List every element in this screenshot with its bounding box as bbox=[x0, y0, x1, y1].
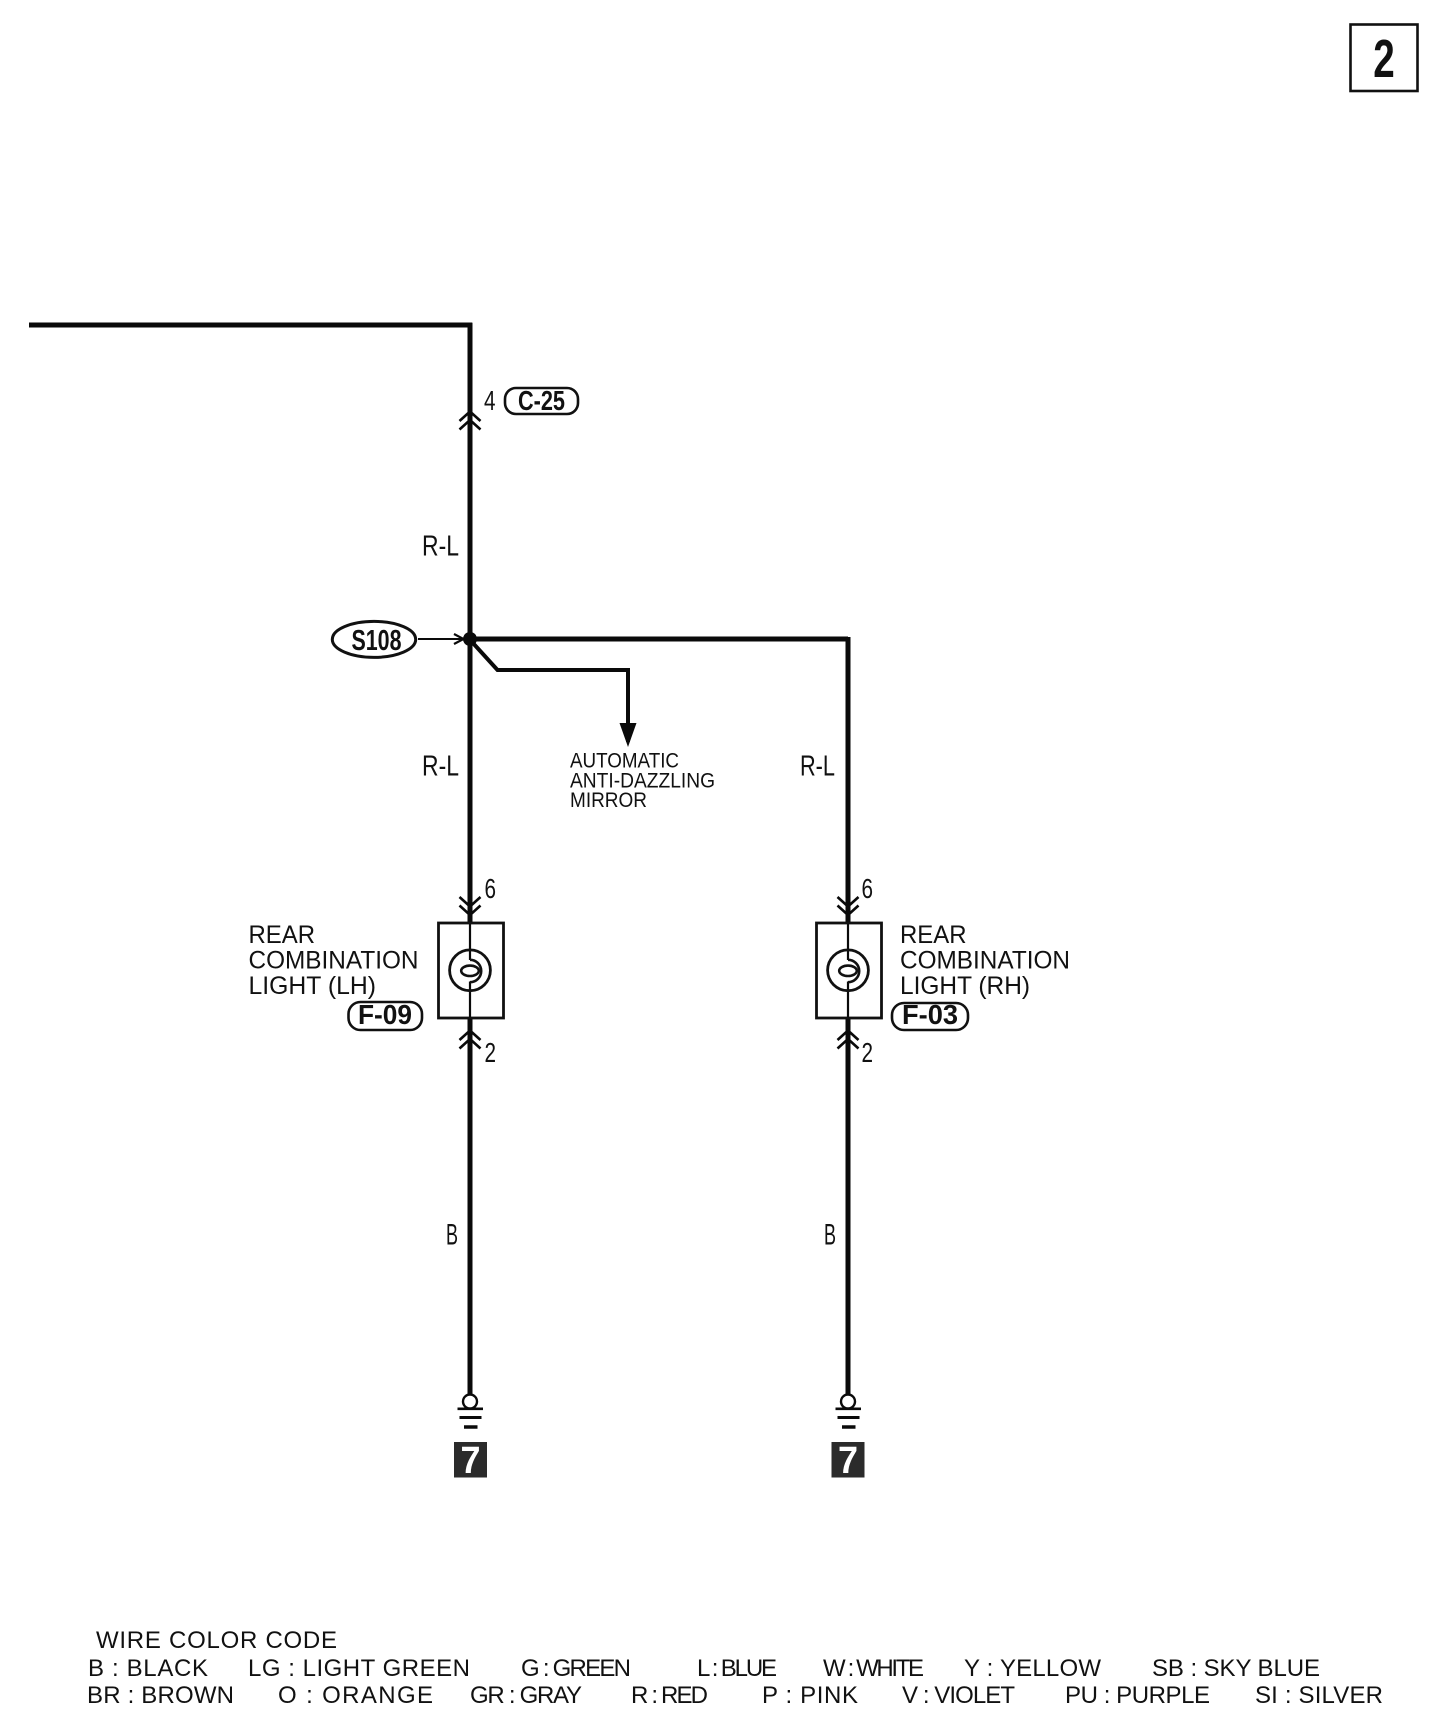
wire: right branch through lamp box bbox=[847, 923, 849, 960]
connector label F-03 bbox=[892, 999, 968, 1030]
pin 6 arrows into left lamp (down) bbox=[460, 897, 481, 915]
splice S108 bbox=[332, 621, 415, 657]
ground reference box 7 (right) bbox=[832, 1440, 865, 1482]
svg-text:P : PINK: P : PINK bbox=[762, 1682, 858, 1709]
wire: right vertical branch (lower) bbox=[846, 1018, 851, 1394]
svg-text:6: 6 bbox=[485, 873, 497, 904]
junction node at S108 bbox=[463, 632, 477, 646]
svg-text:2: 2 bbox=[485, 1037, 497, 1068]
svg-text:V : VIOLET: V : VIOLET bbox=[902, 1682, 1015, 1709]
svg-text:7: 7 bbox=[838, 1440, 858, 1482]
label: automatic anti-dazzling mirror bbox=[570, 750, 715, 813]
wire: left branch through lamp box bbox=[469, 923, 471, 960]
pin 2 arrows out of right lamp (up) bbox=[838, 1031, 859, 1049]
rear combination light (LH) box bbox=[439, 923, 504, 1018]
svg-text:PU : PURPLE: PU : PURPLE bbox=[1065, 1682, 1210, 1709]
svg-text:B: B bbox=[824, 1219, 836, 1252]
wire: left vertical branch (upper) bbox=[468, 323, 473, 923]
svg-text:R-L: R-L bbox=[422, 751, 459, 783]
svg-text:W : WHITE: W : WHITE bbox=[823, 1655, 924, 1682]
wire: junction to right branch (horizontal) bbox=[470, 637, 848, 642]
rear combination light (RH) box bbox=[817, 923, 882, 1018]
svg-text:F-03: F-03 bbox=[902, 999, 958, 1030]
svg-text:4: 4 bbox=[484, 385, 496, 416]
svg-text:LIGHT (LH): LIGHT (LH) bbox=[249, 972, 377, 1000]
svg-text:COMBINATION: COMBINATION bbox=[249, 947, 419, 975]
arrow from S108 to junction bbox=[418, 634, 464, 644]
svg-text:B: B bbox=[446, 1219, 458, 1252]
lamp symbol (RH) bbox=[828, 950, 869, 991]
svg-text:L : BLUE: L : BLUE bbox=[697, 1655, 777, 1682]
svg-text:C-25: C-25 bbox=[518, 385, 565, 416]
ground reference box 7 (left) bbox=[454, 1440, 487, 1482]
svg-text:GR : GRAY: GR : GRAY bbox=[470, 1682, 582, 1709]
svg-text:S108: S108 bbox=[352, 625, 402, 657]
svg-text:BR : BROWN: BR : BROWN bbox=[87, 1682, 234, 1709]
svg-text:REAR: REAR bbox=[249, 921, 316, 949]
label: rear combination light (RH) bbox=[900, 921, 1070, 1000]
svg-text:MIRROR: MIRROR bbox=[570, 789, 647, 812]
svg-text:Y : YELLOW: Y : YELLOW bbox=[964, 1655, 1101, 1682]
legend row 2 bbox=[87, 1682, 1383, 1709]
svg-text:6: 6 bbox=[862, 873, 874, 904]
legend row 1 bbox=[88, 1655, 1320, 1682]
svg-text:2: 2 bbox=[1373, 29, 1395, 89]
svg-text:O : ORANGE: O : ORANGE bbox=[278, 1682, 433, 1709]
svg-text:WIRE COLOR CODE: WIRE COLOR CODE bbox=[96, 1627, 337, 1654]
svg-text:R-L: R-L bbox=[800, 751, 835, 783]
connector C-25 pass-through arrows (up) bbox=[460, 412, 481, 430]
svg-text:LG : LIGHT GREEN: LG : LIGHT GREEN bbox=[248, 1655, 470, 1682]
label: rear combination light (LH) bbox=[249, 921, 419, 1000]
ground symbol (right) bbox=[836, 1395, 862, 1428]
page number box 2 bbox=[1351, 25, 1418, 92]
svg-text:SI : SILVER: SI : SILVER bbox=[1255, 1682, 1383, 1709]
svg-text:COMBINATION: COMBINATION bbox=[900, 947, 1070, 975]
svg-text:LIGHT (RH): LIGHT (RH) bbox=[900, 972, 1030, 1000]
svg-text:G : GREEN: G : GREEN bbox=[521, 1655, 631, 1682]
svg-text:SB : SKY BLUE: SB : SKY BLUE bbox=[1152, 1655, 1320, 1682]
connector label C-25 bbox=[505, 385, 578, 416]
lamp symbol (LH) bbox=[450, 950, 491, 991]
pin 2 arrows out of left lamp (up) bbox=[460, 1031, 481, 1049]
svg-text:2: 2 bbox=[862, 1037, 874, 1068]
pin 6 arrows into right lamp (down) bbox=[838, 897, 859, 915]
svg-text:REAR: REAR bbox=[900, 921, 967, 949]
ground symbol (left) bbox=[458, 1395, 484, 1428]
svg-text:F-09: F-09 bbox=[358, 999, 412, 1030]
svg-text:7: 7 bbox=[461, 1440, 481, 1482]
svg-text:B : BLACK: B : BLACK bbox=[88, 1655, 208, 1682]
svg-text:R-L: R-L bbox=[422, 531, 459, 563]
wire: right vertical branch (upper) bbox=[846, 637, 851, 923]
arrowhead to mirror bbox=[620, 723, 637, 747]
connector label F-09 bbox=[349, 999, 423, 1030]
wire: left vertical branch (lower) bbox=[468, 1018, 473, 1394]
wire: top horizontal feed (R-L) bbox=[29, 323, 472, 328]
svg-text:R : RED: R : RED bbox=[631, 1682, 708, 1709]
wire: stub to automatic anti-dazzling mirror bbox=[472, 642, 628, 742]
